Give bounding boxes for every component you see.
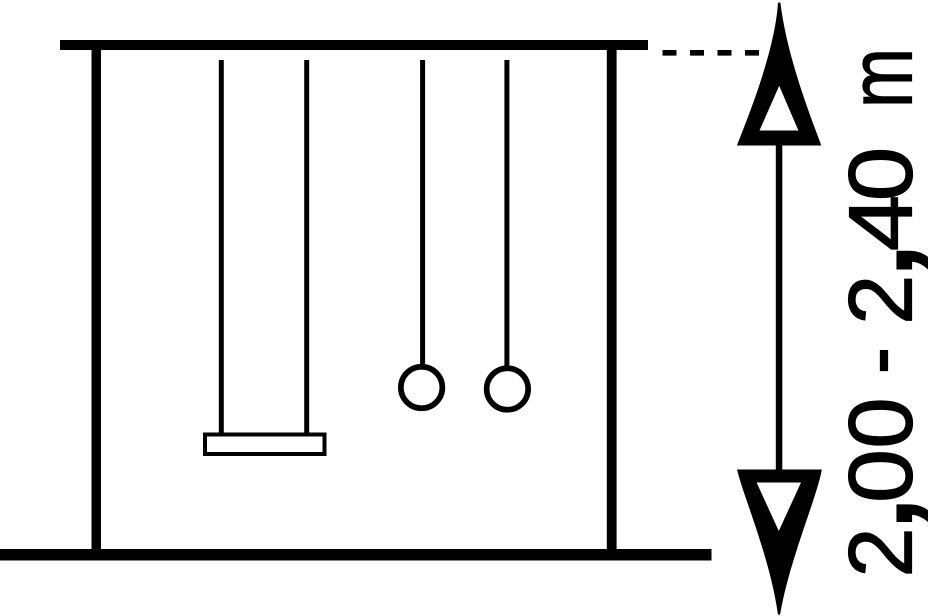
top bar of swing frame — [60, 40, 648, 50]
ring rope left — [420, 60, 425, 366]
bottom dimension arrow — [737, 470, 822, 616]
dimension label 2,00 - 2,40 m — [790, 48, 928, 578]
ring left — [401, 367, 443, 409]
svg-text:4: 4 — [832, 195, 928, 252]
svg-text:m: m — [832, 48, 928, 108]
top dimension arrow — [737, 3, 821, 146]
svg-text:0: 0 — [832, 397, 928, 448]
ground line — [0, 549, 712, 561]
svg-text:0: 0 — [832, 147, 928, 202]
ring right — [487, 368, 529, 410]
ring rope right — [504, 60, 509, 368]
dashed extension line — [663, 50, 767, 56]
swing rope right — [304, 60, 309, 433]
left post — [92, 50, 102, 549]
dimension line vertical — [776, 145, 783, 470]
svg-text:-: - — [828, 347, 928, 374]
right post — [607, 50, 617, 549]
svg-text:0: 0 — [832, 449, 928, 503]
swing seat — [205, 435, 325, 455]
swing rope left — [219, 60, 224, 433]
